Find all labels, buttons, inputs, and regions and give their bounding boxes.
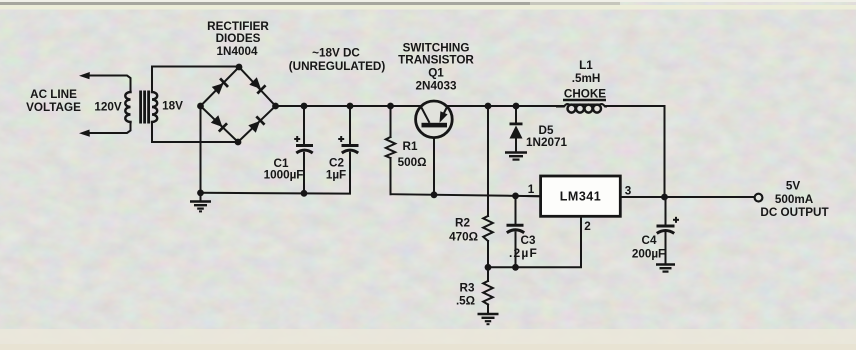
svg-text:2: 2	[584, 220, 591, 233]
diode D5 leads	[515, 106, 517, 123]
svg-text:R2: R2	[455, 217, 470, 230]
capacitor C4 plates	[657, 226, 675, 233]
capacitor C3 plates	[507, 225, 525, 232]
svg-text:.5Ω: .5Ω	[456, 295, 475, 308]
svg-text:~18V DC: ~18V DC	[312, 47, 360, 60]
ground (R3)	[478, 314, 499, 324]
svg-text:DC OUTPUT: DC OUTPUT	[760, 206, 829, 219]
ground (C4)	[656, 265, 675, 272]
svg-text:CHOKE: CHOKE	[564, 88, 606, 101]
wire: bridge negative down to ground rail	[200, 106, 202, 193]
svg-text:1000µF: 1000µF	[264, 169, 304, 182]
svg-text:1: 1	[528, 183, 535, 196]
transformer T1 secondary winding	[152, 92, 157, 122]
svg-text:(UNREGULATED): (UNREGULATED)	[289, 60, 386, 73]
wire: Q1 base lead	[433, 130, 435, 195]
wire: R2 top lead from rail	[487, 106, 489, 216]
capacitor C1 leads	[303, 106, 305, 144]
bridge diode D2 (top-right arm)	[249, 77, 267, 95]
Q1 collector lead (left)	[421, 107, 430, 123]
inductor L1 choke coil	[556, 104, 607, 113]
svg-text:500Ω: 500Ω	[398, 156, 427, 169]
capacitor C2 plates	[342, 146, 359, 154]
C1 polarity +	[294, 136, 300, 142]
svg-text:R1: R1	[403, 140, 418, 153]
svg-text:200µF: 200µF	[632, 248, 665, 261]
unregulated rail: transistor to choke	[447, 105, 564, 107]
svg-text:L1: L1	[579, 59, 593, 72]
output terminal	[755, 194, 763, 202]
transformer T1 primary winding	[125, 92, 130, 122]
Q1 emitter lead with arrow (right)	[444, 107, 448, 115]
U1 pin 2 wire	[580, 216, 582, 230]
unregulated rail: bridge to transistor	[276, 105, 422, 107]
bridge diode D1 (left-top arm)	[211, 78, 229, 95]
svg-text:.2µF: .2µF	[509, 246, 538, 260]
svg-text:5V: 5V	[786, 180, 801, 193]
U1 pin 3 wire	[620, 196, 640, 198]
svg-text:LM341: LM341	[560, 190, 601, 204]
wire: secondary bottom to bridge	[152, 122, 238, 142]
divider junction rail to pin 2	[488, 216, 581, 267]
wire: ground stub	[200, 193, 202, 201]
inductor L1 choke: core line (CHOKE underline)	[563, 99, 606, 102]
svg-text:TRANSISTOR: TRANSISTOR	[398, 54, 474, 67]
ground (D5)	[505, 153, 527, 160]
wire: secondary top to bridge	[152, 67, 239, 93]
svg-text:C4: C4	[642, 234, 657, 247]
resistor R3	[487, 267, 489, 281]
capacitor C2 leads	[349, 106, 351, 144]
output rail: pin 3 to terminal	[620, 196, 754, 198]
svg-text:AC LINE: AC LINE	[30, 88, 77, 101]
wire: AC bottom lead	[88, 122, 131, 133]
base rail: Q1 base to LM341 pin 1	[391, 194, 541, 196]
regulator U1 LM341 box	[541, 176, 621, 216]
capacitor C3 leads	[515, 196, 517, 224]
diode D5 symbol	[510, 123, 523, 139]
resistor R1	[390, 106, 392, 137]
svg-text:470Ω: 470Ω	[449, 231, 478, 244]
capacitor C4 leads	[665, 197, 667, 224]
C4 polarity +	[673, 217, 679, 223]
svg-text:1N2071: 1N2071	[526, 136, 567, 149]
bridge diode D3 (left-bottom arm)	[210, 115, 228, 133]
ground rail (C1/C2 return)	[201, 153, 351, 194]
svg-text:1N4004: 1N4004	[217, 45, 258, 58]
svg-text:500mA: 500mA	[775, 193, 814, 206]
C2 polarity +	[338, 136, 344, 142]
arrowhead AC top	[79, 72, 90, 79]
svg-text:120V: 120V	[94, 101, 122, 114]
ground (bridge)	[190, 202, 211, 212]
svg-text:1µF: 1µF	[326, 169, 346, 182]
U1 pin 1 wire	[526, 195, 541, 197]
svg-text:R3: R3	[460, 282, 475, 295]
rectifier bridge arms	[201, 67, 276, 142]
resistor R2	[483, 216, 493, 241]
svg-text:.5mH: .5mH	[572, 72, 601, 85]
transformer core	[139, 91, 150, 124]
svg-text:2N4033: 2N4033	[416, 80, 457, 93]
Q1 base bar	[422, 123, 448, 128]
svg-text:DIODES: DIODES	[216, 32, 261, 45]
arrowhead AC bottom	[79, 130, 90, 137]
transistor Q1 circle	[416, 101, 453, 138]
svg-text:3: 3	[625, 185, 632, 198]
rail: choke to output corner and down	[606, 106, 665, 197]
svg-text:VOLTAGE: VOLTAGE	[26, 101, 81, 114]
capacitor C1 plates	[296, 146, 313, 154]
svg-text:Q1: Q1	[428, 67, 444, 80]
svg-text:18V: 18V	[162, 100, 183, 113]
wire: AC top lead	[88, 76, 131, 93]
bridge diode D4 (bottom-right arm)	[248, 116, 266, 134]
